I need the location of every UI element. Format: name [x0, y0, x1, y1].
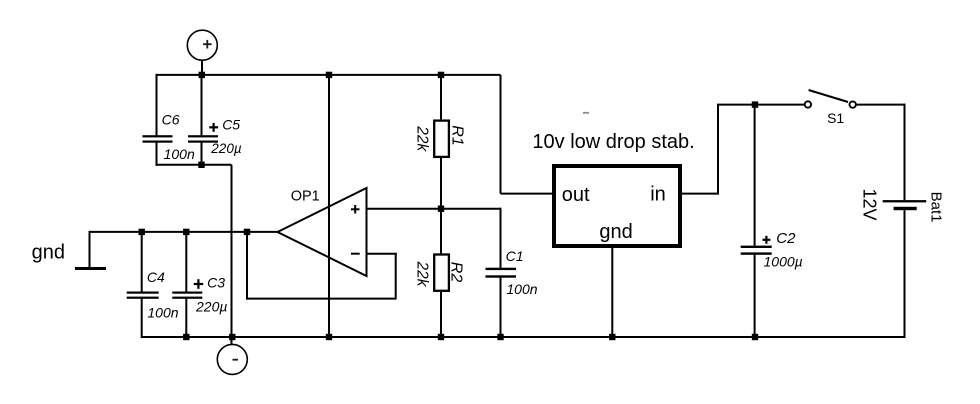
svg-text:22k: 22k — [414, 261, 431, 288]
wire out vertical — [500, 75, 502, 194]
wire plus terminal stem — [201, 60, 203, 75]
wire out pin — [501, 193, 555, 195]
minus supply terminal — [217, 344, 247, 374]
svg-text:C6: C6 — [162, 111, 180, 127]
wire C2 bottom lead — [754, 255, 756, 337]
svg-text:100n: 100n — [506, 281, 537, 297]
svg-text:100n: 100n — [164, 146, 195, 162]
wire in pin — [680, 193, 718, 195]
svg-text:22k: 22k — [414, 125, 431, 152]
svg-text:S1: S1 — [827, 110, 844, 126]
wire C5 bottom lead — [201, 142, 203, 164]
svg-text:in: in — [650, 184, 666, 206]
wire C6 top lead — [156, 74, 158, 135]
capacitor C2 plates — [741, 246, 772, 255]
wire R1 top lead — [440, 75, 442, 120]
wire C2 top lead — [754, 105, 756, 246]
svg-text:220µ: 220µ — [210, 141, 242, 156]
svg-text:C2: C2 — [776, 230, 796, 247]
wire noninverting node — [367, 208, 501, 210]
resistor R1 — [434, 121, 449, 157]
C3 plus — [194, 283, 204, 285]
wire op-amp supply — [328, 75, 330, 337]
wire C1 bottom lead — [500, 278, 502, 338]
switch S1 — [805, 101, 811, 107]
wire battery bottom lead — [904, 210, 906, 338]
wire feedback right vertical — [395, 253, 397, 300]
wire C4 top lead — [141, 232, 143, 292]
regulator U2 box — [554, 166, 680, 246]
resistor R2 — [434, 255, 449, 291]
svg-text:gnd: gnd — [599, 221, 632, 243]
wire stab gnd pin — [611, 246, 613, 337]
svg-text:C1: C1 — [506, 248, 524, 264]
stray mark — [583, 112, 589, 114]
capacitor C3 plates — [172, 292, 202, 299]
wire C1 top lead — [500, 208, 502, 268]
wire gnd net — [90, 231, 278, 233]
wire C5-C6 link — [156, 164, 232, 166]
C2 plus — [763, 239, 771, 241]
wire feedback left vertical — [246, 232, 248, 300]
electrolytic plus marks — [194, 123, 771, 289]
svg-text:10v low drop stab.: 10v low drop stab. — [532, 131, 694, 153]
capacitor C5 plates — [188, 135, 218, 143]
C5 plus — [209, 126, 218, 128]
wire C3 top lead — [185, 232, 187, 292]
svg-text:out: out — [562, 184, 590, 206]
svg-text:OP1: OP1 — [291, 189, 320, 205]
plus supply terminal — [187, 30, 217, 60]
wire bottom rail — [142, 336, 905, 338]
wire switch right — [856, 104, 904, 106]
svg-text:220µ: 220µ — [195, 299, 227, 315]
wire R2 bottom lead — [440, 292, 442, 337]
svg-text:12V: 12V — [860, 188, 880, 220]
op-amp U1 triangle — [278, 188, 367, 276]
svg-text:C3: C3 — [207, 274, 225, 290]
wire C6 bottom lead — [156, 142, 158, 165]
battery Bat1 plates — [883, 200, 927, 210]
capacitor C1 plates — [486, 268, 517, 278]
wire gnd symbol stem — [89, 231, 91, 267]
wire negative drop — [231, 165, 233, 345]
svg-text:R2: R2 — [448, 262, 465, 283]
op-amp plus input mark — [351, 205, 360, 214]
wire R1-R2 link — [440, 158, 442, 255]
wire C4 bottom lead — [141, 299, 143, 339]
svg-text:C4: C4 — [147, 269, 165, 285]
wire in vertical — [717, 105, 719, 195]
svg-text:R1: R1 — [449, 125, 466, 145]
wire C3 bottom lead — [185, 299, 187, 338]
wire switch left — [717, 104, 804, 106]
svg-text:C5: C5 — [222, 117, 240, 133]
wire top rail — [156, 74, 501, 76]
op-amp minus input mark — [351, 253, 360, 255]
svg-text:gnd: gnd — [32, 242, 65, 264]
capacitor C4 plates — [127, 292, 159, 299]
wire inverting pin — [367, 253, 397, 255]
svg-text:1000µ: 1000µ — [764, 254, 803, 270]
capacitor C6 plates — [143, 135, 173, 143]
svg-text:100n: 100n — [147, 305, 178, 321]
wire feedback bottom — [246, 298, 396, 300]
wire battery top lead — [904, 104, 906, 201]
gnd symbol bar — [75, 267, 106, 270]
wire C5 top lead — [201, 74, 203, 135]
svg-text:Bat1: Bat1 — [928, 192, 945, 223]
